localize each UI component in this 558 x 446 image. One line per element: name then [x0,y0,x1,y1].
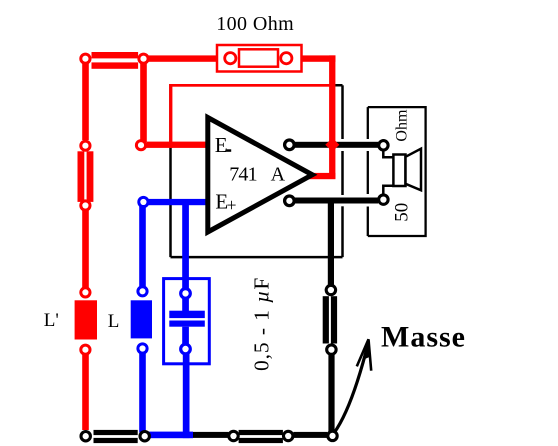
wire: blue capacitor branch lower [183,354,190,438]
wire: output E- to speaker top terminal [295,142,379,148]
node above L [138,287,147,296]
speaker terminal lower [379,195,388,204]
speaker LS1 horn [406,149,422,191]
node above capacitor [181,289,191,299]
Masse arrow [334,342,369,434]
wire: resistor to right corner [292,55,336,61]
svg-text:Masse: Masse [381,321,465,354]
svg-text:50: 50 [392,203,413,222]
speaker terminal upper [379,141,388,150]
svg-text:L: L [108,311,120,332]
wire: blue capacitor branch upper [182,199,189,288]
svg-text:741: 741 [229,163,257,185]
wire: black branch to ground bus [328,354,334,432]
node below L [138,344,147,353]
svg-text:0,5 - 1 µF: 0,5 - 1 µF [250,277,274,371]
resistor R1 right terminal [281,53,292,64]
capacitor C1 box [164,279,210,364]
node E+ corner [139,197,148,206]
wire: from plate [182,327,189,344]
ground bus node 4 [284,431,293,440]
wire: output A/E+ side to speaker bottom terminal [295,198,379,204]
fuse element F1 (red double bar) [78,151,85,202]
op-amp output terminal lower [285,196,295,206]
wire: blue E+ input [143,199,209,205]
node: black branch lower terminal [327,345,336,354]
wire: red vertical from top node2 to E- node [140,63,147,143]
ground bus node 3 [229,431,238,440]
speaker LS1 body [393,155,405,187]
wire: into plate [182,298,189,311]
inductor L body [131,300,152,338]
svg-text:Ohm: Ohm [394,109,411,142]
node E- junction [136,141,145,150]
junction dot (red diamond) [325,138,339,152]
node top right of capsule [139,54,148,63]
node below capacitor [181,344,191,354]
wire: red vertical to op-amp output [329,55,335,178]
capacitor C1 plates [169,311,205,318]
speaker box [368,107,426,236]
ground bus node 5 (Masse junction) [328,431,337,440]
top connector capsule (red) [92,52,139,58]
inductor L' body [75,300,97,339]
svg-text:100 Ohm: 100 Ohm [216,13,294,35]
op-amp U1 triangle [208,118,312,233]
wire: red left branch lower [82,354,89,431]
wire: blue left branch (L) [139,205,146,287]
wire: red into op-amp apex [308,173,335,179]
node below L' [81,345,90,354]
op-amp output terminal upper [285,140,295,150]
bus connector capsule 2 [239,430,283,435]
resistor R1 left terminal [225,53,236,64]
wire: red rail from node to resistor [148,55,225,61]
node above red fuse [81,141,90,150]
wire: red feedback line over box edge [169,84,172,148]
wire: blue left branch lower [139,353,146,433]
svg-text:E: E [215,133,228,157]
node above L' [81,288,90,297]
node below red fuse [81,201,90,210]
wire: black branch down from bottom output [328,198,334,285]
svg-text:+: + [227,195,237,215]
speaker connector lines [383,152,393,158]
wire: red left branch upper [82,63,89,141]
741 module box [171,85,343,257]
ground bus node 1 (red branch) [81,432,90,441]
node V+ left top [81,54,90,63]
svg-text:L': L' [44,310,59,331]
svg-text:A: A [271,163,286,185]
resistor R1 body [239,49,278,66]
wire: red to E- input [147,142,210,148]
bus connector capsule 1 [94,430,138,435]
wire: red left branch middle [82,209,89,288]
wire: blue bus segment [144,432,193,439]
ground bus node 2 (blue branch) [140,432,149,441]
ground bus wires [193,432,229,438]
node: black branch upper terminal [326,285,335,294]
resistor R1 100 Ohm outer box [217,45,302,72]
fuse element F2 (black double bar) [323,296,329,343]
